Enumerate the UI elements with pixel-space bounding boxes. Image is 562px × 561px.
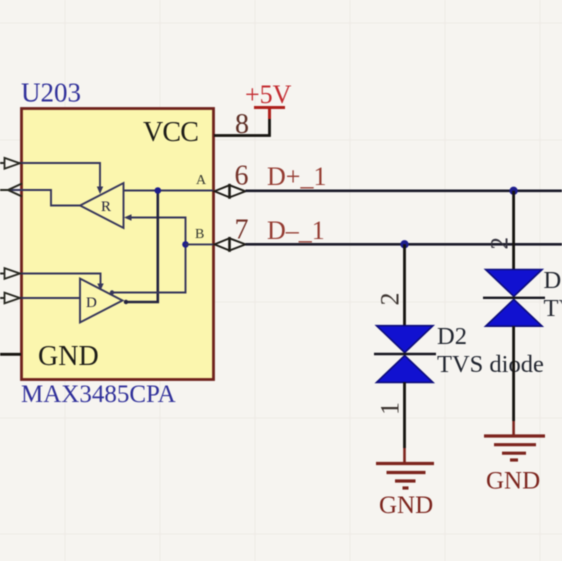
svg-text:GND: GND	[379, 492, 433, 519]
wire D3 to ground	[512, 326, 515, 421]
wire D+	[246, 189, 562, 192]
node A junction	[155, 187, 162, 194]
wire R bottom input from B	[127, 218, 186, 245]
wire D-	[246, 243, 562, 246]
svg-text:8: 8	[235, 109, 249, 140]
wire B to pin 7	[186, 243, 214, 245]
power +5V symbol	[254, 108, 285, 120]
pin 6 (A) port symbol	[215, 185, 246, 197]
svg-text:2: 2	[487, 237, 514, 250]
wire RO pin to R output	[0, 190, 80, 206]
wire R top input to A	[124, 190, 214, 192]
pin arrow RO (left edge, pointing left)	[0, 184, 22, 197]
svg-text:R: R	[101, 199, 111, 215]
wire D+ junction to right TVS	[512, 191, 515, 270]
svg-text:2: 2	[376, 293, 405, 306]
svg-text:D+_1: D+_1	[267, 162, 326, 191]
svg-text:D3: D3	[544, 267, 562, 294]
diode D3 (TVS)	[483, 270, 545, 327]
svg-text:A: A	[196, 173, 207, 188]
pin 7 (B) port symbol	[215, 238, 246, 250]
node at driver apex	[124, 300, 128, 304]
op-amp U203 chip body	[22, 109, 214, 380]
svg-text:D–_1: D–_1	[267, 216, 325, 245]
svg-text:TVS diode: TVS diode	[544, 295, 562, 322]
node B junction	[182, 241, 189, 248]
pin arrow RE (left edge, pointing right)	[0, 158, 20, 169]
wire RE pin into R slant	[0, 163, 100, 190]
ground (left)	[376, 464, 434, 489]
wire D- junction to D2	[403, 244, 406, 326]
pin arrow DI (left edge, pointing right)	[0, 293, 20, 304]
svg-text:7: 7	[235, 215, 249, 246]
svg-text:D2: D2	[437, 323, 467, 350]
svg-text:TVS diode: TVS diode	[437, 351, 544, 378]
svg-text:GND: GND	[38, 341, 99, 372]
receiver triangle R	[80, 183, 124, 228]
svg-text:GND: GND	[486, 468, 540, 495]
svg-text:U203: U203	[21, 78, 81, 108]
wire D slant to B	[112, 244, 186, 292]
wire DI pin to D input	[0, 297, 80, 299]
driver triangle D	[80, 279, 123, 323]
svg-text:6: 6	[235, 161, 249, 192]
svg-text:B: B	[195, 227, 204, 242]
node D- junction	[400, 240, 408, 248]
svg-text:VCC: VCC	[143, 117, 198, 148]
wire D2 to ground	[403, 382, 406, 448]
diode D2 (TVS)	[374, 326, 436, 383]
wire driver output vertical to A	[124, 191, 158, 303]
pin arrow DE (left edge, pointing right)	[0, 268, 20, 279]
node D+ junction	[509, 187, 517, 195]
wire DE pin into D slant	[0, 274, 101, 288]
svg-text:1: 1	[376, 402, 405, 415]
wire GND pin (left, bottom)	[0, 353, 21, 356]
svg-text:MAX3485CPA: MAX3485CPA	[21, 381, 176, 408]
svg-text:D: D	[86, 295, 97, 311]
svg-text:+5V: +5V	[245, 80, 292, 109]
pin 8 wire to +5V	[214, 118, 270, 136]
ground (right)	[484, 436, 545, 460]
